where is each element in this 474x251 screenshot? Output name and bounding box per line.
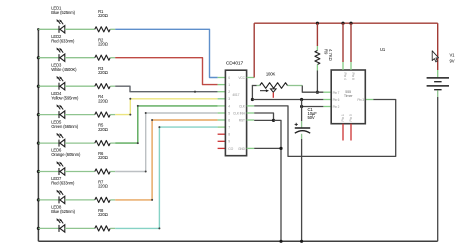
- wire net R6 to CD4017 pin 5: [115, 113, 217, 172]
- wire cap top vertical: [301, 100, 303, 122]
- pot wiper terminal: [271, 89, 277, 92]
- svg-text:V1: V1: [450, 53, 456, 58]
- node bend LED8 net: [158, 227, 160, 229]
- svg-text:1: 1: [228, 83, 230, 87]
- svg-text:Red (633nm): Red (633nm): [51, 181, 75, 186]
- LED LED7 Red (633nm): [57, 190, 65, 204]
- node bus junction row 2: [37, 56, 40, 59]
- svg-text:220Ω: 220Ω: [98, 13, 108, 18]
- node bend LED7 net: [151, 199, 153, 201]
- pin leg CD4017 pin 4: [218, 105, 226, 107]
- wire bus to LED4: [38, 114, 59, 116]
- svg-text:Yellow (595nm): Yellow (595nm): [51, 95, 79, 100]
- wire R2 stub: [110, 57, 115, 59]
- battery V1 9V: [437, 70, 439, 77]
- pin leg CD4017 GND: [247, 147, 255, 149]
- node bus junction row 6: [37, 170, 40, 173]
- wire CD4017 CLK to 555 pin3: [254, 100, 396, 157]
- node ground rail junction: [279, 240, 282, 243]
- svg-text:2: 2: [228, 90, 230, 94]
- wire net R3 to CD4017 pin 2: [115, 86, 217, 92]
- wire battery negative lead: [437, 90, 439, 97]
- wire R5 stub: [110, 142, 115, 144]
- wire LED7 to R7: [65, 199, 95, 201]
- wire R1 stub: [110, 28, 115, 30]
- svg-text:0: 0: [228, 76, 230, 80]
- svg-text:220Ω: 220Ω: [98, 127, 108, 132]
- wire LED1 to R1: [65, 28, 95, 30]
- node VCC at 555 pin8: [349, 22, 352, 25]
- node cap ground junction: [300, 240, 303, 243]
- wire R6 stub: [110, 171, 115, 173]
- wire LED6 to R6: [65, 171, 95, 173]
- pin leg CD4017 CLK: [247, 105, 255, 107]
- resistor R8 220 ohm: [95, 226, 110, 231]
- wire left power bus: [37, 29, 39, 241]
- wire pot to 555 pin 7: [302, 86, 323, 93]
- svg-text:220Ω: 220Ω: [98, 70, 108, 75]
- wire VCC drop to R9: [316, 23, 318, 46]
- pin leg 555 pin4: [342, 62, 344, 70]
- node joint on white net: [194, 91, 196, 93]
- wire net R2 to CD4017 pin 1: [115, 58, 217, 85]
- svg-text:RST: RST: [239, 118, 245, 122]
- wire bus to LED8: [38, 227, 59, 229]
- pin leg 555 pin2: [323, 106, 331, 108]
- node cap top at pin2 wire: [300, 105, 303, 108]
- LED LED2 Red (633nm): [57, 48, 65, 62]
- wire pot left lead: [252, 85, 256, 87]
- wire net R5 to CD4017 pin 4: [115, 106, 217, 143]
- label R9: [324, 49, 334, 61]
- svg-text:Pin 4: Pin 4: [343, 73, 347, 80]
- wire net R8 to CD4017 pin 7: [115, 127, 217, 228]
- resistor R3 220 ohm: [95, 84, 110, 89]
- pin leg 555 pin7: [323, 91, 331, 93]
- pin leg CD4017 pin 9 unconnected: [218, 140, 226, 142]
- op-amp U2 CD4017 decade counter: [225, 60, 246, 155]
- svg-text:Timer: Timer: [344, 94, 354, 98]
- svg-text:GND: GND: [238, 147, 246, 151]
- wire VCC top rail: [254, 22, 438, 24]
- wire bus to LED1: [38, 28, 59, 30]
- wire to 555 pin 2: [302, 106, 324, 108]
- svg-text:Pin 1: Pin 1: [341, 114, 345, 121]
- wire bus to LED3: [38, 85, 59, 87]
- svg-text:CD4017: CD4017: [226, 60, 244, 66]
- svg-text:CLK INH: CLK INH: [233, 111, 246, 115]
- wire cap bottom to ground: [301, 134, 303, 139]
- resistor R6 220 ohm: [95, 169, 110, 174]
- LED LED1 Blue (525nm): [57, 19, 65, 33]
- wire R4 stub: [110, 114, 115, 116]
- capacitor C1 10uF 50V: [295, 123, 311, 133]
- svg-text:VCC: VCC: [238, 76, 245, 80]
- svg-text:7: 7: [228, 126, 230, 130]
- svg-text:100K: 100K: [266, 71, 276, 76]
- wire R7 stub: [110, 199, 115, 201]
- wire pot right lead: [288, 85, 303, 87]
- wire ground net down: [274, 120, 282, 241]
- node bus junction row 3: [37, 85, 40, 88]
- pin leg CD4017 pin 2: [218, 91, 226, 93]
- pin leg 555 pin8: [350, 62, 352, 70]
- wire VCC drop to battery: [437, 23, 439, 70]
- pin leg 555 pin3: [365, 99, 373, 101]
- svg-text:CLK: CLK: [239, 104, 246, 108]
- svg-text:Orange (605nm): Orange (605nm): [51, 152, 81, 157]
- svg-text:8: 8: [228, 133, 230, 137]
- svg-text:6: 6: [228, 118, 230, 122]
- op-amp U1 555 timer: [331, 70, 365, 124]
- pin leg CD4017 CLK INH: [247, 112, 255, 114]
- resistor R4 220 ohm: [95, 112, 110, 117]
- wire VCC drop to 555 pin 4: [342, 23, 344, 62]
- wire net R7 to CD4017 pin 6: [115, 120, 217, 200]
- wire bus to LED5: [38, 142, 59, 144]
- mouse cursor: [432, 51, 438, 62]
- wire LED3 to R3: [65, 85, 95, 87]
- svg-text:Pin 8: Pin 8: [351, 73, 355, 80]
- LED LED4 Yellow (595nm): [57, 104, 65, 118]
- svg-text:220Ω: 220Ω: [98, 184, 108, 189]
- svg-text:Pin 5: Pin 5: [349, 114, 353, 121]
- svg-text:Pin 6: Pin 6: [333, 98, 340, 102]
- wire bus to LED7: [38, 199, 59, 201]
- LED LED3 White (4500K): [57, 76, 65, 90]
- wire bus to LED6: [38, 171, 59, 173]
- wire RST to ground net: [254, 119, 273, 121]
- svg-text:Pin 7: Pin 7: [333, 91, 340, 95]
- pin leg CD4017 VCC: [247, 77, 255, 79]
- resistor R5 220 ohm: [95, 141, 110, 146]
- wire LED4 to R4: [65, 114, 95, 116]
- node VCC at 555 pin4: [341, 22, 344, 25]
- svg-text:Red (633nm): Red (633nm): [51, 38, 75, 43]
- svg-text:220Ω: 220Ω: [98, 212, 108, 217]
- pot wiper arrow: [260, 90, 267, 92]
- wire R3 stub: [110, 85, 115, 87]
- resistor R1 220 ohm: [95, 27, 110, 32]
- resistor R2 220 ohm: [95, 55, 110, 60]
- node bend LED6 net: [145, 171, 147, 173]
- node bus junction row 4: [37, 113, 40, 116]
- svg-text:Blue (525nm): Blue (525nm): [51, 209, 75, 214]
- node bus junction row 7: [37, 198, 40, 201]
- svg-text:Pin 2: Pin 2: [333, 105, 340, 109]
- svg-text:50V: 50V: [308, 115, 315, 120]
- node VCC at R9: [316, 22, 319, 25]
- wire R9 to pin7 node: [316, 71, 318, 93]
- resistor R7 220 ohm: [95, 197, 110, 202]
- pin leg CD4017 pin 5: [218, 112, 226, 114]
- svg-text:4.7KΩ: 4.7KΩ: [328, 49, 333, 61]
- svg-text:5: 5: [228, 111, 230, 115]
- svg-text:9V: 9V: [450, 59, 455, 64]
- pin leg CD4017 pin 3: [218, 98, 226, 100]
- svg-text:3: 3: [228, 97, 230, 101]
- svg-text:CO: CO: [228, 147, 233, 151]
- svg-text:220Ω: 220Ω: [98, 41, 108, 46]
- svg-text:Blue (525nm): Blue (525nm): [51, 10, 75, 15]
- svg-text:9: 9: [228, 140, 230, 144]
- wire VCC vertical to CD4017: [253, 23, 255, 77]
- svg-text:White (4500K): White (4500K): [51, 67, 77, 72]
- pin leg CD4017 pin 0: [218, 77, 226, 79]
- svg-text:U1: U1: [380, 47, 386, 52]
- potentiometer RV1 100K: [260, 83, 288, 89]
- pin leg CD4017 pin 8 unconnected: [218, 133, 226, 135]
- svg-text:4: 4: [228, 104, 230, 108]
- wire R8 stub: [110, 227, 115, 229]
- wire VCC drop to 555 pin 8: [350, 23, 352, 62]
- pin leg CD4017 RST: [247, 119, 255, 121]
- pin leg 555 pin5 unconnected: [350, 124, 352, 141]
- pin leg CD4017 pin 6: [218, 119, 226, 121]
- resistor R9: [316, 46, 318, 51]
- pin leg CD4017 pin 7: [218, 126, 226, 128]
- wire net R1 to CD4017 pin 0: [115, 29, 217, 77]
- svg-text:Green (565nm): Green (565nm): [51, 124, 79, 129]
- svg-text:4017: 4017: [232, 93, 239, 97]
- node bend LED4 net: [129, 114, 131, 116]
- wire net R4 to CD4017 pin 3: [115, 99, 217, 115]
- pin leg CD4017 pin CO unconnected: [218, 147, 226, 149]
- node bus junction row 1: [37, 28, 40, 31]
- svg-text:Pin 3: Pin 3: [357, 98, 364, 102]
- pin leg 555 pin6: [323, 99, 331, 101]
- pin leg pot wiper unconnected: [272, 93, 274, 98]
- wire LED8 to R8: [65, 227, 95, 229]
- node bus junction row 8: [37, 227, 40, 230]
- node cap top at pin6 wire: [300, 98, 303, 101]
- wire bottom ground rail: [38, 240, 437, 242]
- node GND junction: [279, 147, 282, 150]
- node bend LED5 net: [137, 142, 139, 144]
- pin leg 555 pin1 unconnected: [342, 124, 344, 141]
- svg-text:R9: R9: [324, 49, 329, 55]
- wire to 555 pin 6: [252, 99, 323, 101]
- wire LED2 to R2: [65, 57, 95, 59]
- node pot left to pin6 wire: [251, 98, 254, 101]
- wire bus to LED2: [38, 57, 59, 59]
- node R9 pot 555 pin7: [316, 91, 319, 94]
- wire CLK INH to ground net: [254, 113, 273, 120]
- wire GND pin to ground net: [254, 147, 281, 149]
- LED LED6 Orange (605nm): [57, 161, 65, 175]
- LED LED5 Green (565nm): [57, 133, 65, 147]
- svg-text:220Ω: 220Ω: [98, 98, 108, 103]
- pin leg CD4017 pin 1: [218, 84, 226, 86]
- svg-text:220Ω: 220Ω: [98, 155, 108, 160]
- node bus junction row 5: [37, 142, 40, 145]
- wire LED5 to R5: [65, 142, 95, 144]
- LED LED8 Blue (525nm): [57, 218, 65, 232]
- node CLKINH RST junction: [272, 119, 275, 122]
